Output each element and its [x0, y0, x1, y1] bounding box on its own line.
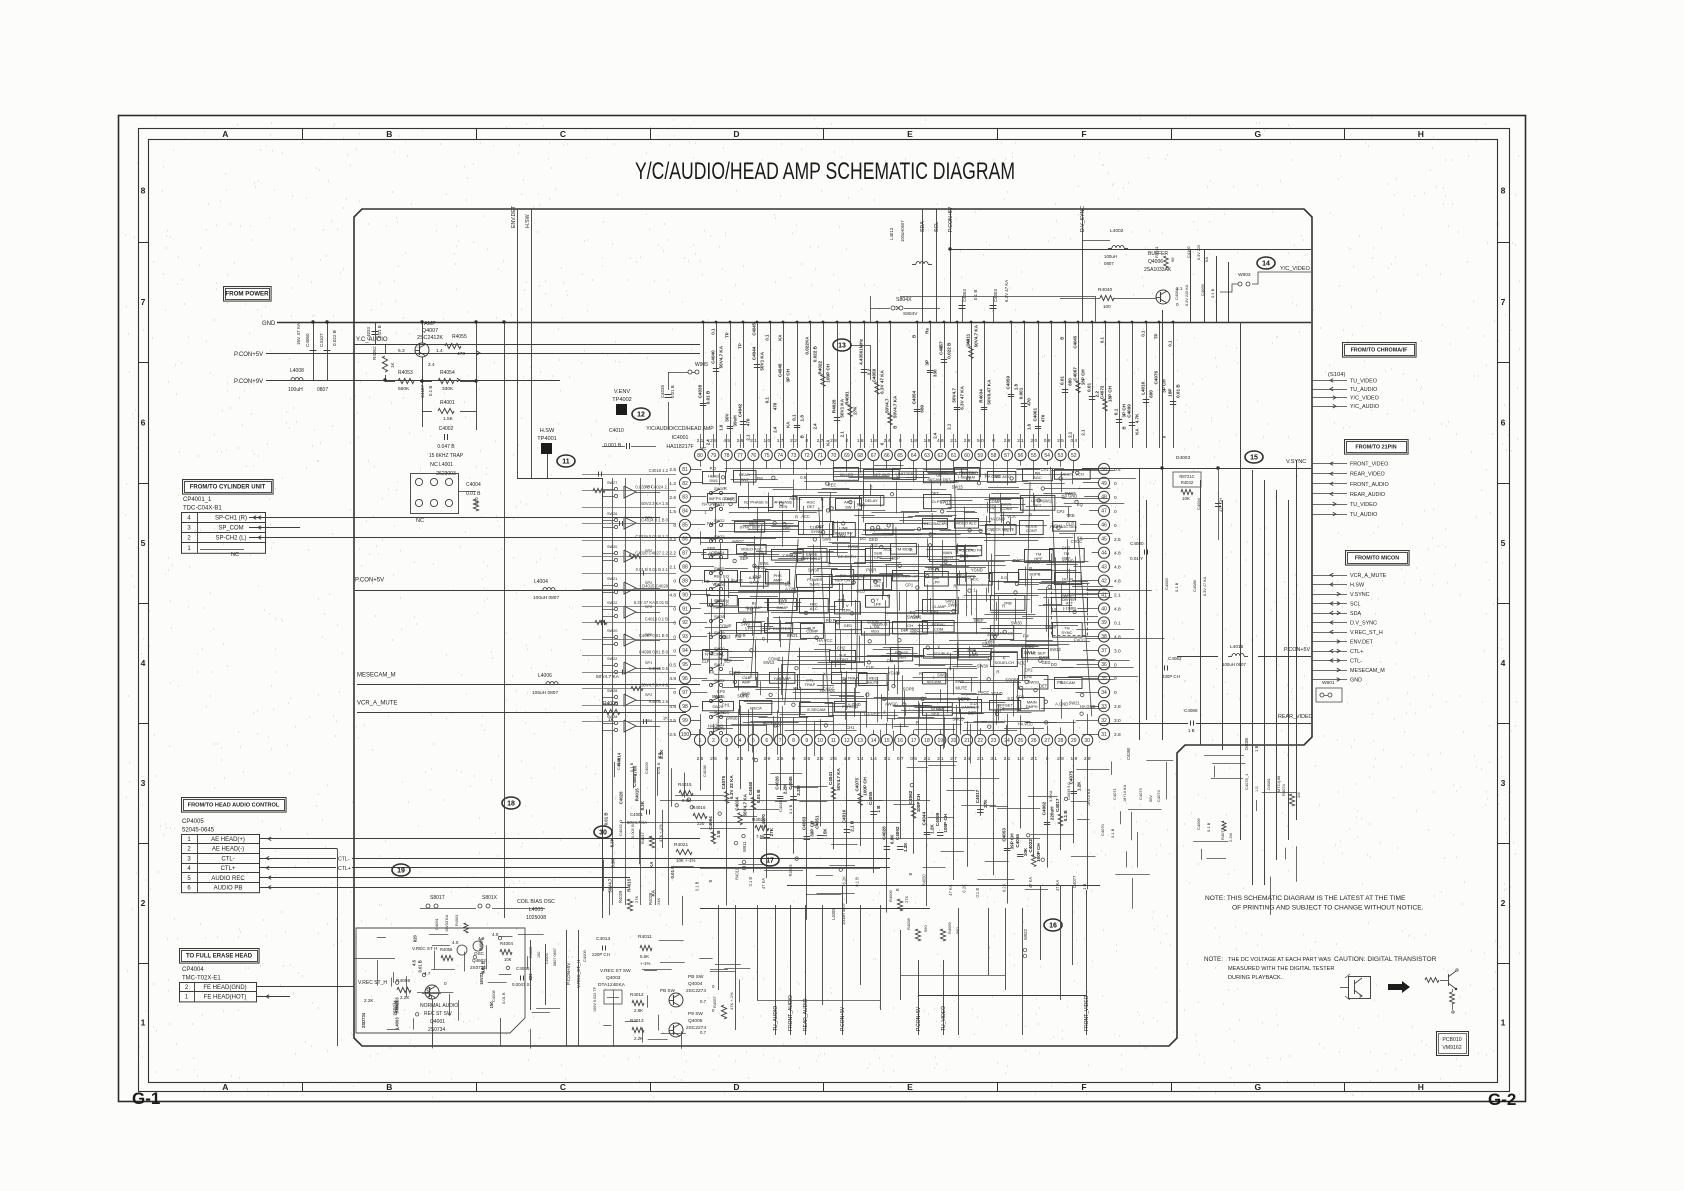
- svg-text:R4011: R4011: [638, 934, 652, 940]
- svg-text:SW20: SW20: [714, 486, 725, 491]
- svg-text:CP4005: CP4005: [182, 819, 204, 825]
- svg-text:50V1 KA: 50V1 KA: [760, 351, 765, 370]
- svg-text:X: X: [823, 671, 826, 676]
- svg-text:R4050: R4050: [922, 874, 927, 887]
- svg-text:0.1 B: 0.1 B: [788, 804, 793, 814]
- svg-text:R4001: R4001: [440, 400, 455, 406]
- svg-text:81: 81: [682, 467, 688, 473]
- svg-text:6.3V 22 KA: 6.3V 22 KA: [729, 775, 734, 799]
- svg-text:95: 95: [682, 662, 688, 668]
- svg-text:D4086: D4086: [1244, 737, 1249, 750]
- svg-text:46: 46: [1101, 523, 1107, 529]
- svg-text:KIL: KIL: [793, 686, 800, 691]
- svg-text:HA GND: HA GND: [962, 471, 978, 476]
- svg-text:YGND: YGND: [991, 691, 1003, 696]
- svg-text:3: 3: [725, 738, 728, 744]
- svg-text:66: 66: [884, 453, 890, 459]
- svg-text:88: 88: [682, 564, 688, 570]
- svg-text:0: 0: [1114, 523, 1117, 529]
- svg-text:REP ON: REP ON: [835, 578, 850, 583]
- svg-text:P.O: P.O: [774, 723, 781, 728]
- svg-text:27K: 27K: [904, 896, 909, 903]
- svg-text:TRB: TRB: [701, 579, 709, 584]
- svg-text:R4014: R4014: [617, 752, 622, 765]
- svg-text:FVCC: FVCC: [848, 544, 859, 549]
- svg-text:C4010: C4010: [609, 428, 624, 434]
- svg-text:C4035: C4035: [660, 385, 665, 398]
- svg-text:SW26: SW26: [987, 632, 999, 637]
- svg-text:R4058: R4058: [440, 947, 453, 952]
- svg-text:B: B: [893, 426, 898, 429]
- svg-text:0.5: 0.5: [669, 662, 676, 668]
- svg-text:39P CH: 39P CH: [1010, 833, 1015, 850]
- svg-text:2.0: 2.0: [1030, 438, 1037, 444]
- svg-text:S801X: S801X: [482, 895, 498, 901]
- svg-text:SW22: SW22: [714, 518, 725, 523]
- svg-text:CAUTION: DIGITAL TRANSISTOR: CAUTION: DIGITAL TRANSISTOR: [1334, 956, 1437, 963]
- svg-text:+-1%: +-1%: [640, 961, 650, 966]
- svg-text:0: 0: [673, 648, 676, 654]
- svg-text:FVCC: FVCC: [1074, 638, 1085, 643]
- svg-text:KA: KA: [651, 889, 656, 896]
- svg-text:SW9: SW9: [741, 622, 751, 627]
- svg-text:REC EQ: REC EQ: [714, 573, 729, 578]
- svg-text:100P CH: 100P CH: [863, 776, 868, 795]
- svg-text:C4048: C4048: [778, 363, 783, 377]
- svg-text:R4003: R4003: [455, 915, 459, 926]
- svg-text:470: 470: [457, 351, 465, 357]
- svg-text:FROM/TO CYLINDER UNIT: FROM/TO CYLINDER UNIT: [190, 485, 266, 491]
- svg-text:SEP: SEP: [892, 556, 900, 561]
- svg-text:6.3: 6.3: [398, 348, 405, 354]
- svg-text:CTL-: CTL-: [338, 857, 350, 863]
- svg-text:27K: 27K: [983, 799, 988, 808]
- svg-text:31: 31: [1101, 732, 1107, 738]
- svg-text:75: 75: [764, 453, 770, 459]
- svg-text:FRONT_AUDIO: FRONT_AUDIO: [1350, 482, 1389, 488]
- svg-text:100P CH: 100P CH: [916, 793, 921, 812]
- svg-text:R8721C: R8721C: [1179, 474, 1194, 479]
- svg-text:PCB010: PCB010: [1442, 1037, 1461, 1043]
- svg-text:1.2K: 1.2K: [930, 824, 935, 834]
- svg-text:SP2: SP2: [645, 693, 652, 697]
- svg-text:470: 470: [1041, 414, 1046, 422]
- svg-text:R: R: [919, 671, 922, 676]
- svg-text:6: 6: [765, 738, 768, 744]
- svg-text:B: B: [708, 880, 713, 883]
- svg-text:50V4.7: 50V4.7: [885, 398, 890, 413]
- svg-text:6.3V 47 KA: 6.3V 47 KA: [960, 385, 965, 409]
- svg-text:CTL-: CTL-: [1350, 659, 1362, 665]
- svg-text:R4091: R4091: [845, 391, 850, 405]
- svg-text:19: 19: [938, 738, 944, 744]
- svg-text:C4067: C4067: [1073, 367, 1078, 381]
- svg-text:R4041: R4041: [1154, 245, 1159, 258]
- svg-text:C4061: C4061: [1033, 408, 1038, 422]
- svg-text:L4008: L4008: [290, 368, 304, 374]
- svg-text:R4008: R4008: [603, 701, 618, 707]
- svg-text:TU_VIDEO: TU_VIDEO: [1350, 378, 1377, 384]
- svg-text:TU_VIDEO: TU_VIDEO: [941, 1006, 947, 1031]
- svg-text:53: 53: [1058, 453, 1064, 459]
- svg-text:2S0734: 2S0734: [428, 1027, 445, 1033]
- svg-text:2623003: 2623003: [436, 471, 456, 477]
- svg-text:F: F: [1081, 1082, 1086, 1092]
- svg-text:23: 23: [991, 738, 997, 744]
- svg-text:0.1: 0.1: [711, 328, 716, 335]
- svg-text:R: R: [821, 497, 824, 502]
- svg-text:C4022: C4022: [1028, 839, 1033, 853]
- svg-text:SW15: SW15: [940, 500, 952, 505]
- svg-text:1M: 1M: [1296, 792, 1301, 798]
- svg-text:SW6: SW6: [760, 561, 770, 566]
- svg-text:0.1 B: 0.1 B: [1206, 822, 1211, 832]
- svg-text:LAG LEAD FF: LAG LEAD FF: [956, 548, 982, 553]
- svg-text:C: C: [560, 1082, 566, 1092]
- svg-text:OF PRINTING AND SUBJECT TO CHA: OF PRINTING AND SUBJECT TO CHANGE WITHOU…: [1232, 905, 1424, 912]
- svg-text:2.8: 2.8: [1114, 732, 1121, 738]
- svg-text:CLAMP: CLAMP: [932, 604, 946, 609]
- svg-text:R4028: R4028: [832, 399, 837, 413]
- svg-text:X: X: [949, 666, 952, 671]
- svg-text:REAR_VIDEO: REAR_VIDEO: [1278, 714, 1313, 720]
- svg-text:SW21: SW21: [714, 662, 725, 667]
- svg-text:C4075: C4075: [721, 775, 726, 789]
- svg-text:2.1: 2.1: [947, 423, 952, 430]
- svg-text:FM: FM: [1023, 634, 1030, 639]
- svg-text:G-2: G-2: [1488, 1090, 1516, 1109]
- svg-text:6.8K: 6.8K: [889, 834, 894, 844]
- svg-text:26: 26: [1031, 738, 1037, 744]
- svg-text:C4062: C4062: [1042, 801, 1047, 815]
- svg-text:1 B: 1 B: [1188, 728, 1195, 733]
- svg-text:71: 71: [817, 453, 823, 459]
- svg-text:50V4.7 KA: 50V4.7 KA: [719, 345, 724, 368]
- svg-text:CH1: CH1: [1054, 524, 1063, 529]
- svg-text:TRB: TRB: [1066, 513, 1074, 518]
- svg-text:0807: 0807: [1104, 261, 1114, 266]
- svg-text:19: 19: [397, 867, 405, 874]
- svg-text:0807: 0807: [317, 387, 328, 393]
- svg-text:Q4007: Q4007: [422, 328, 438, 334]
- svg-text:100uH0607: 100uH0607: [900, 220, 905, 242]
- svg-text:PO R: PO R: [866, 567, 876, 572]
- svg-text:15: 15: [884, 738, 890, 744]
- svg-text:AWGC: AWGC: [732, 539, 745, 544]
- svg-text:0: 0: [1114, 481, 1117, 487]
- svg-text:4.8: 4.8: [1114, 607, 1121, 613]
- svg-text:CTL+: CTL+: [338, 866, 351, 872]
- svg-text:4.7K: 4.7K: [1135, 413, 1140, 423]
- svg-text:6: 6: [141, 418, 146, 428]
- svg-text:2.1: 2.1: [669, 565, 676, 571]
- svg-text:SW30: SW30: [977, 663, 989, 668]
- svg-text:C4099: C4099: [935, 812, 940, 826]
- svg-text:SW13: SW13: [1050, 647, 1062, 652]
- svg-text:W801: W801: [1322, 680, 1335, 686]
- svg-text:0.01 B: 0.01 B: [670, 866, 675, 879]
- svg-text:90: 90: [682, 592, 688, 598]
- svg-text:ENV.DET: ENV.DET: [511, 205, 517, 228]
- svg-text:SCL: SCL: [1350, 602, 1361, 608]
- svg-text:15: 15: [1250, 454, 1258, 461]
- svg-text:0.01 B: 0.01 B: [1176, 384, 1181, 398]
- svg-text:2.5: 2.5: [803, 756, 810, 762]
- svg-text:0.033 B C4024 2.: 0.033 B C4024 2.: [635, 485, 668, 490]
- svg-text:16V33: 16V33: [479, 972, 484, 985]
- svg-text:1.0: 1.0: [763, 438, 770, 444]
- svg-text:SW15: SW15: [1024, 650, 1036, 655]
- svg-text:GND: GND: [1350, 678, 1362, 684]
- svg-text:R4025: R4025: [752, 817, 766, 822]
- svg-text:R4054: R4054: [440, 370, 455, 376]
- svg-text:R4022: R4022: [818, 361, 823, 375]
- svg-text:96: 96: [682, 676, 688, 682]
- svg-text:C4004: C4004: [466, 482, 481, 488]
- svg-text:R4055: R4055: [452, 334, 467, 340]
- svg-text:560: 560: [955, 927, 960, 934]
- svg-text:8.3K: 8.3K: [610, 837, 615, 847]
- svg-text:SDA: SDA: [1350, 611, 1361, 617]
- svg-text:P.CON+5V: P.CON+5V: [916, 1006, 922, 1031]
- svg-text:C4038: C4038: [702, 764, 707, 777]
- svg-text:CTL-: CTL-: [221, 856, 234, 862]
- svg-text:470: 470: [1027, 398, 1032, 406]
- svg-text:B: B: [912, 335, 917, 338]
- svg-text:H: H: [1418, 129, 1424, 139]
- svg-text:C4070: C4070: [1100, 823, 1105, 836]
- svg-text:VM9162: VM9162: [1442, 1045, 1461, 1051]
- svg-text:C4066: C4066: [1196, 817, 1201, 830]
- svg-text:3P: 3P: [925, 360, 930, 366]
- svg-text:18P CH: 18P CH: [1081, 369, 1086, 386]
- svg-text:KA: KA: [966, 339, 971, 345]
- svg-text:COM: COM: [934, 627, 943, 632]
- svg-text:0.7: 0.7: [700, 999, 707, 1004]
- svg-text:SW15: SW15: [952, 716, 964, 721]
- svg-text:2.5: 2.5: [669, 718, 676, 724]
- svg-text:DRIVER: DRIVER: [1062, 598, 1077, 602]
- svg-text:Q4005: Q4005: [688, 1018, 703, 1024]
- svg-text:2.4: 2.4: [884, 438, 891, 444]
- svg-text:VCR_A_MUTE: VCR_A_MUTE: [357, 701, 397, 707]
- svg-text:C4075: C4075: [1068, 770, 1073, 784]
- svg-text:SW22: SW22: [607, 601, 617, 605]
- svg-text:0.1: 0.1: [765, 397, 770, 404]
- svg-text:2.5: 2.5: [1114, 537, 1121, 543]
- svg-text:SW26: SW26: [607, 512, 617, 516]
- svg-text:PB SW: PB SW: [688, 974, 704, 980]
- svg-text:P.CON+5V: P.CON+5V: [948, 206, 954, 232]
- svg-text:2.1 B: 2.1 B: [849, 820, 854, 832]
- svg-text:SW28: SW28: [607, 689, 617, 693]
- svg-text:7: 7: [141, 297, 146, 307]
- svg-text:MECA: MECA: [750, 705, 762, 710]
- svg-text:IREF: IREF: [872, 622, 882, 627]
- svg-text:68: 68: [1170, 257, 1175, 262]
- svg-text:GED: GED: [869, 537, 878, 542]
- svg-text:W803: W803: [1238, 272, 1251, 278]
- svg-text:0: 0: [992, 438, 995, 444]
- svg-text:B: B: [1122, 426, 1127, 429]
- svg-text:S.D: S.D: [1007, 696, 1014, 701]
- svg-text:C4062: C4062: [908, 790, 913, 804]
- svg-text:27K: 27K: [769, 827, 774, 836]
- svg-text:2.1: 2.1: [924, 756, 931, 762]
- svg-text:R4052: R4052: [372, 346, 377, 360]
- svg-text:R4045: R4045: [788, 864, 793, 877]
- svg-text:SEP: SEP: [931, 711, 939, 716]
- svg-text:LPF: LPF: [874, 602, 882, 607]
- svg-text:SP2: SP2: [645, 605, 652, 609]
- svg-text:1 B: 1 B: [716, 830, 721, 838]
- svg-text:GND: GND: [262, 321, 276, 327]
- svg-text:C4074: C4074: [1156, 789, 1161, 802]
- svg-text:7: 7: [1501, 297, 1506, 307]
- svg-text:FROM/TO CHROMA/IF: FROM/TO CHROMA/IF: [1351, 347, 1409, 353]
- svg-text:C4009: C4009: [582, 949, 587, 962]
- svg-text:50V4.7 KA: 50V4.7 KA: [836, 767, 841, 790]
- svg-text:470: 470: [773, 402, 778, 410]
- svg-text:2SC2412K: 2SC2412K: [417, 335, 443, 341]
- svg-text:E.SECAM: E.SECAM: [807, 707, 825, 712]
- svg-text:FROM/TO MICON: FROM/TO MICON: [1355, 555, 1399, 561]
- svg-text:R4015: R4015: [627, 878, 632, 891]
- svg-text:SW24: SW24: [714, 550, 725, 555]
- svg-text:SW29: SW29: [714, 630, 725, 635]
- svg-text:4: 4: [141, 658, 146, 668]
- svg-text:SP-CH2 (L): SP-CH2 (L): [215, 536, 246, 542]
- svg-text:DO: DO: [1051, 662, 1057, 667]
- svg-text:4.5: 4.5: [492, 932, 499, 937]
- svg-text:NC: NC: [231, 552, 239, 558]
- svg-text:1K: 1K: [663, 716, 668, 721]
- svg-text:Q4004: Q4004: [688, 981, 703, 987]
- svg-text:REAR_AUDIO: REAR_AUDIO: [1350, 492, 1385, 498]
- svg-text:DO: DO: [958, 697, 964, 702]
- svg-text:91: 91: [682, 606, 688, 612]
- svg-text:L4005: L4005: [529, 907, 544, 913]
- svg-text:Q: Q: [762, 636, 765, 641]
- svg-text:12: 12: [637, 411, 645, 418]
- svg-text:C4059: C4059: [1006, 376, 1011, 390]
- svg-text:FM: FM: [757, 476, 764, 481]
- svg-text:SOPB: SOPB: [903, 687, 915, 692]
- svg-text:AUDIO REC: AUDIO REC: [211, 876, 245, 882]
- svg-text:CH1: CH1: [846, 725, 855, 730]
- svg-text:AGC: AGC: [1033, 475, 1042, 480]
- svg-text:C4098 0.01 B 0: C4098 0.01 B 0: [639, 650, 669, 655]
- svg-text:ENV.DET: ENV.DET: [1350, 640, 1374, 646]
- svg-text:C4016: C4016: [841, 809, 846, 823]
- svg-text:4: 4: [739, 738, 742, 744]
- svg-text:EQ: EQ: [1077, 502, 1083, 507]
- svg-text:GED: GED: [844, 623, 853, 628]
- svg-text:1 B: 1 B: [1082, 884, 1087, 890]
- svg-text:R: R: [1002, 603, 1005, 608]
- svg-text:50V4.7 KA: 50V4.7 KA: [893, 395, 898, 418]
- svg-text:SW15: SW15: [732, 579, 744, 584]
- svg-text:1.2K: 1.2K: [1076, 781, 1081, 791]
- svg-text:R: R: [954, 583, 957, 588]
- svg-text:C4025 0.5: C4025 0.5: [649, 666, 669, 671]
- svg-text:100: 100: [681, 732, 690, 738]
- svg-text:REC: REC: [828, 483, 837, 488]
- svg-text:B: B: [386, 1082, 392, 1092]
- svg-text:2.1: 2.1: [1030, 756, 1037, 762]
- svg-text:SW6: SW6: [822, 537, 832, 542]
- svg-text:SECAM: SECAM: [1061, 680, 1075, 685]
- svg-text:R4074: R4074: [1281, 783, 1286, 796]
- svg-text:100uH 0807: 100uH 0807: [533, 595, 559, 601]
- svg-text:C4038: C4038: [698, 384, 703, 398]
- svg-text:SP_COM: SP_COM: [218, 526, 243, 532]
- svg-text:C4078_1: C4078_1: [1244, 773, 1249, 790]
- svg-text:HA GND: HA GND: [1062, 494, 1078, 499]
- svg-text:DET: DET: [968, 711, 977, 716]
- svg-text:V.SYNC: V.SYNC: [1350, 592, 1370, 598]
- svg-text:4.8: 4.8: [1114, 565, 1121, 571]
- svg-text:92: 92: [682, 620, 688, 626]
- svg-text:AMP: AMP: [424, 321, 436, 327]
- svg-text:6.3V 47 KA: 6.3V 47 KA: [1203, 576, 1207, 596]
- svg-text:0: 0: [1114, 509, 1117, 515]
- svg-text:2.2K: 2.2K: [400, 995, 410, 1000]
- svg-text:17: 17: [911, 738, 917, 744]
- svg-text:15K: 15K: [823, 828, 828, 837]
- svg-text:C4102: C4102: [1186, 245, 1191, 258]
- svg-text:SEP: SEP: [967, 575, 975, 580]
- svg-text:0.1 B: 0.1 B: [695, 881, 700, 891]
- svg-text:CP4001_1: CP4001_1: [183, 497, 212, 503]
- svg-text:LPF: LPF: [932, 580, 940, 585]
- svg-text:40: 40: [1101, 606, 1107, 612]
- svg-text:0: 0: [846, 438, 849, 444]
- svg-text:5.6K: 5.6K: [640, 954, 649, 959]
- svg-text:2SC2274: 2SC2274: [686, 988, 706, 994]
- svg-text:42: 42: [1101, 578, 1107, 584]
- svg-text:SW26: SW26: [726, 716, 738, 721]
- svg-text:2.5: 2.5: [669, 467, 676, 473]
- svg-text:16: 16: [897, 738, 903, 744]
- svg-text:47 KA: 47 KA: [761, 878, 766, 889]
- svg-text:SW15: SW15: [937, 673, 949, 678]
- svg-text:45: 45: [1101, 537, 1107, 543]
- svg-text:R4040: R4040: [1098, 287, 1112, 293]
- svg-text:SW27: SW27: [607, 481, 617, 485]
- svg-text:85: 85: [682, 523, 688, 529]
- svg-text:THE DC VOLTAGE AT EACH PART WA: THE DC VOLTAGE AT EACH PART WAS: [1228, 957, 1331, 963]
- svg-text:C4092: C4092: [895, 826, 900, 840]
- svg-text:0: 0: [1114, 690, 1117, 696]
- svg-text:67: 67: [871, 453, 877, 459]
- svg-text:0.7: 0.7: [700, 1030, 707, 1035]
- svg-text:C4083: C4083: [1164, 577, 1169, 590]
- svg-text:C4026: C4026: [644, 761, 649, 774]
- svg-text:0.1 B: 0.1 B: [975, 888, 980, 898]
- svg-text:L4004: L4004: [534, 579, 548, 585]
- svg-text:S804V: S804V: [903, 311, 918, 317]
- svg-text:ACC: ACC: [801, 514, 810, 519]
- svg-text:W922: W922: [1023, 928, 1028, 940]
- svg-text:SW22: SW22: [714, 678, 725, 683]
- svg-text:R: R: [763, 721, 766, 726]
- svg-text:0.022 B: 0.022 B: [813, 345, 818, 362]
- svg-text:R4098: R4098: [906, 917, 911, 930]
- svg-text:S801T: S801T: [430, 895, 445, 901]
- svg-text:82: 82: [682, 481, 688, 487]
- svg-text:C4060: C4060: [305, 333, 310, 347]
